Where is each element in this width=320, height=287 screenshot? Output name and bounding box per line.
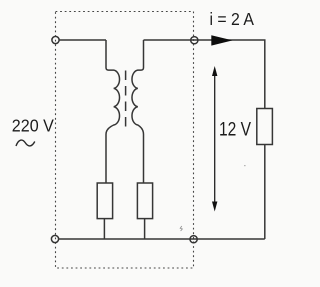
wire top-left (source to transformer primary) [59, 39, 106, 41]
terminal bottom-left [51, 235, 58, 242]
transformer primary winding L1 [106, 40, 120, 183]
svg-text:12 V: 12 V [219, 118, 251, 140]
terminal bottom-right [190, 236, 197, 243]
label i = 2 A [210, 9, 255, 29]
svg-text:220 V: 220 V [12, 116, 55, 136]
AC source symbol ~ [16, 140, 35, 146]
bottom return wire [59, 238, 265, 240]
wire below load resistor [264, 145, 266, 240]
resistor R2 (secondary bottom) [137, 183, 152, 219]
wire below R2 [144, 219, 146, 239]
label 12 V [219, 118, 251, 140]
wire below R1 [103, 219, 105, 239]
label 220 V [12, 116, 55, 136]
scan speck [244, 165, 246, 166]
dashed source boundary box [56, 12, 194, 269]
scan artifact near bottom-right terminal [180, 226, 182, 231]
terminal top-right [191, 37, 198, 44]
current direction arrow (filled) [211, 35, 232, 45]
wire top-right (secondary to load) [144, 40, 265, 109]
terminal top-left [52, 36, 59, 43]
transformer core (dashed) [125, 71, 127, 132]
resistor R3 (load) [257, 109, 273, 145]
12 V measurement arrow (double headed) [212, 66, 217, 212]
resistor R1 (primary bottom) [97, 183, 112, 219]
transformer secondary winding L2 [132, 40, 144, 183]
svg-text:i = 2 A: i = 2 A [210, 9, 255, 29]
